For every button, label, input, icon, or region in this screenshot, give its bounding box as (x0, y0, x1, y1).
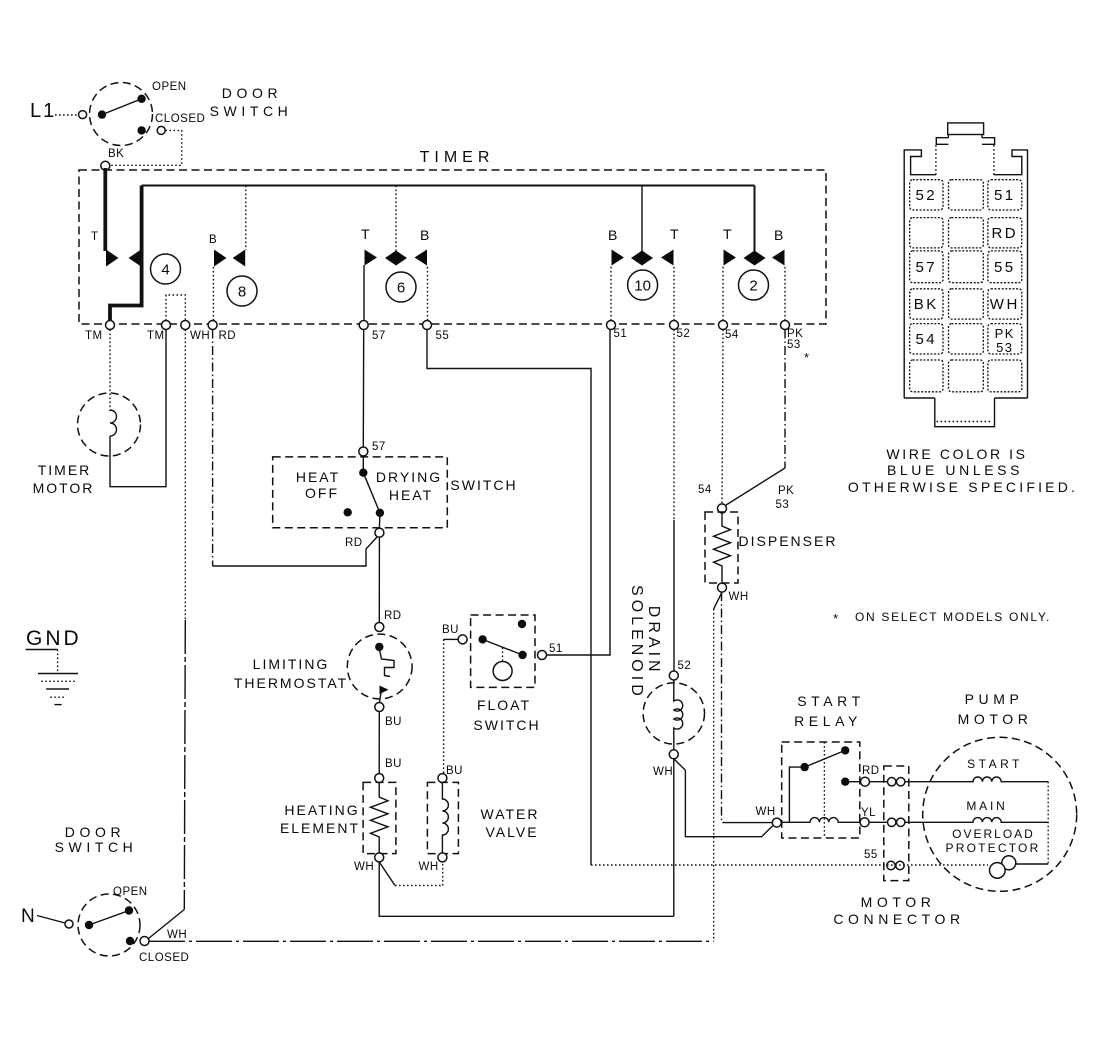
svg-text:55: 55 (994, 259, 1016, 276)
svg-text:PK: PK (778, 485, 794, 497)
svg-text:WH: WH (190, 330, 210, 342)
svg-text:51: 51 (994, 187, 1016, 204)
svg-text:WIRE COLOR IS: WIRE COLOR IS (886, 446, 1027, 462)
svg-text:HEAT: HEAT (389, 487, 433, 503)
svg-text:53: 53 (787, 339, 801, 351)
svg-text:B: B (209, 234, 217, 246)
svg-text:START: START (967, 757, 1023, 771)
svg-text:RD: RD (991, 225, 1018, 242)
svg-text:T: T (723, 226, 732, 242)
svg-text:ON SELECT MODELS ONLY.: ON SELECT MODELS ONLY. (855, 610, 1051, 624)
svg-text:WH: WH (729, 591, 749, 603)
svg-text:BK: BK (108, 148, 124, 160)
svg-text:OVERLOAD: OVERLOAD (952, 827, 1035, 841)
svg-text:RD: RD (219, 330, 237, 342)
svg-text:FLOAT: FLOAT (477, 697, 531, 713)
svg-text:CONNECTOR: CONNECTOR (833, 911, 964, 927)
svg-text:*: * (833, 611, 838, 626)
svg-text:MAIN: MAIN (966, 799, 1007, 813)
svg-text:CLOSED: CLOSED (155, 113, 205, 125)
svg-text:LIMITING: LIMITING (253, 656, 330, 672)
svg-text:N: N (21, 906, 36, 927)
svg-text:START: START (797, 693, 865, 709)
svg-text:BU: BU (385, 716, 402, 728)
svg-text:DOOR: DOOR (65, 824, 125, 840)
svg-text:52: 52 (677, 328, 691, 340)
svg-text:WH: WH (354, 861, 374, 873)
svg-text:THERMOSTAT: THERMOSTAT (234, 675, 348, 691)
svg-text:RD: RD (384, 610, 402, 622)
svg-text:TM: TM (147, 330, 165, 342)
svg-text:OFF: OFF (305, 485, 339, 501)
svg-text:OPEN: OPEN (113, 886, 148, 898)
svg-text:SWITCH: SWITCH (473, 717, 540, 733)
svg-text:53: 53 (776, 499, 790, 511)
svg-text:52: 52 (915, 187, 937, 204)
svg-text:HEATING: HEATING (284, 802, 359, 818)
svg-text:MOTOR: MOTOR (958, 711, 1033, 727)
svg-text:DOOR: DOOR (222, 85, 282, 101)
svg-text:DRYING: DRYING (376, 469, 442, 485)
svg-text:WATER: WATER (481, 806, 540, 822)
svg-text:T: T (91, 231, 99, 243)
svg-text:BU: BU (446, 765, 463, 777)
svg-text:PK: PK (995, 326, 1015, 341)
svg-text:SWITCH: SWITCH (450, 477, 517, 493)
svg-text:SOLENOID: SOLENOID (628, 585, 645, 700)
svg-text:MOTOR: MOTOR (861, 894, 936, 910)
svg-text:57: 57 (915, 259, 937, 276)
svg-text:57: 57 (372, 441, 386, 453)
svg-text:52: 52 (678, 660, 692, 672)
svg-text:B: B (420, 227, 429, 243)
svg-text:51: 51 (549, 643, 563, 655)
svg-text:*: * (804, 350, 809, 365)
svg-text:TIMER: TIMER (420, 149, 495, 166)
svg-text:57: 57 (372, 330, 386, 342)
svg-text:RELAY: RELAY (794, 713, 862, 729)
svg-text:BU: BU (385, 758, 402, 770)
svg-text:OPEN: OPEN (152, 81, 187, 93)
svg-text:WH: WH (167, 929, 187, 941)
svg-text:T: T (670, 226, 679, 242)
svg-text:PROTECTOR: PROTECTOR (946, 841, 1041, 855)
svg-text:TM: TM (85, 330, 103, 342)
svg-text:8: 8 (238, 284, 246, 301)
svg-text:YL: YL (861, 807, 876, 819)
svg-text:GND: GND (26, 627, 82, 650)
svg-text:2: 2 (749, 278, 757, 295)
svg-text:MOTOR: MOTOR (33, 480, 95, 496)
svg-text:TIMER: TIMER (38, 462, 92, 478)
svg-text:OTHERWISE SPECIFIED.: OTHERWISE SPECIFIED. (848, 479, 1078, 495)
svg-text:53: 53 (996, 340, 1013, 355)
svg-text:BU: BU (442, 624, 459, 636)
svg-text:WH: WH (653, 766, 673, 778)
svg-text:54: 54 (915, 331, 937, 348)
svg-text:L1: L1 (30, 100, 56, 122)
svg-text:BLUE UNLESS: BLUE UNLESS (887, 462, 1023, 478)
svg-text:RD: RD (345, 537, 363, 549)
svg-text:54: 54 (725, 329, 739, 341)
svg-text:RD: RD (862, 765, 880, 777)
svg-text:51: 51 (614, 328, 628, 340)
svg-text:WH: WH (756, 806, 776, 818)
svg-text:VALVE: VALVE (485, 824, 538, 840)
svg-text:CLOSED: CLOSED (139, 952, 189, 964)
svg-text:54: 54 (698, 484, 712, 496)
svg-text:ELEMENT: ELEMENT (280, 820, 360, 836)
svg-text:WH: WH (419, 861, 439, 873)
svg-text:WH: WH (990, 296, 1020, 313)
svg-text:10: 10 (634, 278, 651, 295)
svg-text:55: 55 (864, 849, 878, 861)
svg-text:55: 55 (436, 330, 450, 342)
svg-text:SWITCH: SWITCH (55, 839, 138, 855)
svg-text:6: 6 (397, 280, 405, 297)
svg-text:4: 4 (161, 262, 169, 279)
svg-text:SWITCH: SWITCH (210, 103, 293, 119)
svg-text:T: T (361, 226, 370, 242)
svg-text:DISPENSER: DISPENSER (739, 533, 838, 549)
svg-text:DRAIN: DRAIN (645, 606, 662, 676)
svg-text:BK: BK (914, 296, 939, 313)
svg-text:HEAT: HEAT (296, 469, 340, 485)
svg-text:B: B (608, 227, 617, 243)
svg-text:PUMP: PUMP (965, 691, 1024, 707)
svg-text:B: B (774, 227, 783, 243)
